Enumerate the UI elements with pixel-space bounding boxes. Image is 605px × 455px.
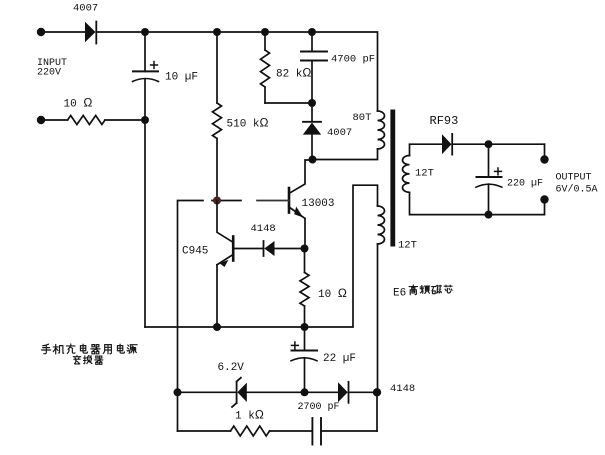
svg-text:220V: 220V [37,68,61,79]
wire left rail upper (to C1 plate) [144,32,146,71]
node base drive junction [213,197,221,205]
svg-text:OUTPUT: OUTPUT [556,173,592,184]
svg-text:6.2V: 6.2V [218,362,245,374]
label E6 high-frequency core [393,285,452,299]
wire top rail left segment [41,31,85,33]
svg-text:510 kΩ: 510 kΩ [227,116,269,131]
resistor R2 510k vertical [213,32,222,200]
wire bottom ground rail [145,185,378,327]
wire left rail lower [144,79,146,327]
svg-text:10 Ω: 10 Ω [318,286,347,301]
svg-text:12T: 12T [398,240,417,252]
resistor R3 82k vertical [261,32,270,103]
node zener row left junction [174,388,182,396]
wire bottom RC row left [178,430,231,432]
diode D4 4148 bottom [338,382,377,403]
node junction top of R3 82k [261,28,269,36]
resistor R1 10 ohm input [68,116,105,125]
node output terminal plus [540,155,548,163]
svg-text:4148: 4148 [251,223,276,235]
svg-text:220 µF: 220 µF [507,179,543,190]
svg-text:4007: 4007 [327,127,352,139]
label chinese title line2 (converter) [73,355,103,364]
svg-text:RF93: RF93 [430,114,459,128]
transformer secondary winding 12T [403,156,410,193]
capacitor C2 4700pF [301,32,327,103]
transistor Q2 C945 [217,201,233,328]
wire feedback winding bottom down [377,244,379,392]
svg-text:80T: 80T [353,112,372,124]
transformer core [390,110,395,247]
wire junction left jog down [178,201,204,432]
capacitor C1 10uF [133,62,159,82]
svg-text:4148: 4148 [390,383,415,395]
wire input 2 to R1 [41,119,68,121]
wire output bottom corner [410,192,545,214]
wire feedback junction down [376,392,378,431]
resistor R5 1k [231,426,270,436]
wire R3 bottom to node [265,102,312,104]
svg-text:4700 pF: 4700 pF [331,54,375,66]
node 220uF top junction [485,140,493,148]
wire output top corner [544,144,546,159]
zener diode ZD1 6.2V [232,378,338,407]
wire secondary top [410,144,443,155]
diode D2 4007 vertical [303,103,321,160]
wire node to 80T winding bottom [313,149,378,160]
capacitor C4 2700pF [312,418,321,445]
transformer primary winding 80T [378,111,385,149]
node junction top of C1 [141,28,149,36]
node ground rail at R4 [301,323,309,331]
svg-text:2700 pF: 2700 pF [298,402,340,413]
capacitor C5 220uF [476,144,502,214]
svg-text:13003: 13003 [302,198,335,210]
wire R1 to left rail [105,119,145,121]
svg-text:82 kΩ: 82 kΩ [276,66,311,81]
node output terminal minus [540,195,548,203]
wire C4 to right [321,430,377,432]
node input terminal 1 [37,28,45,36]
svg-text:C945: C945 [182,246,208,258]
node junction left rail at input [141,116,149,124]
svg-text:22 µF: 22 µF [323,353,356,365]
wire zener row left [178,391,237,393]
node ground rail at Q2 emitter [213,323,221,331]
diode D5 RF93 [442,134,545,155]
node collector junction [309,156,317,164]
svg-text:1 kΩ: 1 kΩ [235,408,264,423]
node input terminal 2 [37,116,45,124]
transistor Q1 13003 [289,160,313,249]
resistor R4 10 ohm emitter [300,249,309,328]
wire base Q1 (faded by watermark in original) [212,200,241,202]
node junction top of C2 4700pF [308,28,316,36]
svg-text:6V/0.5A: 6V/0.5A [556,184,598,196]
node emitter junction Q1 [301,245,309,253]
node 220uF bottom junction [485,211,493,219]
node 22uF bottom junction [301,388,309,396]
svg-text:4007: 4007 [73,3,98,15]
diode D1 4007 [85,22,96,44]
svg-text:12T: 12T [415,168,434,180]
svg-text:10 Ω: 10 Ω [64,96,93,111]
transformer feedback winding 12T [378,206,385,244]
diode D3 4148 to base of Q2 [233,241,304,256]
label chinese title line1 (mobile phone charger power supply) [42,344,138,354]
svg-text:10 µF: 10 µF [165,72,198,84]
svg-text:E6: E6 [393,288,406,300]
node junction top of R2 510k [213,28,221,36]
wire R5 to C4 [270,430,313,432]
wire top rail right segment [97,32,378,111]
node feedback bottom junction [373,388,381,396]
capacitor C3 22uF [291,327,317,392]
node junction 82k/4700pF/D2 [308,99,316,107]
